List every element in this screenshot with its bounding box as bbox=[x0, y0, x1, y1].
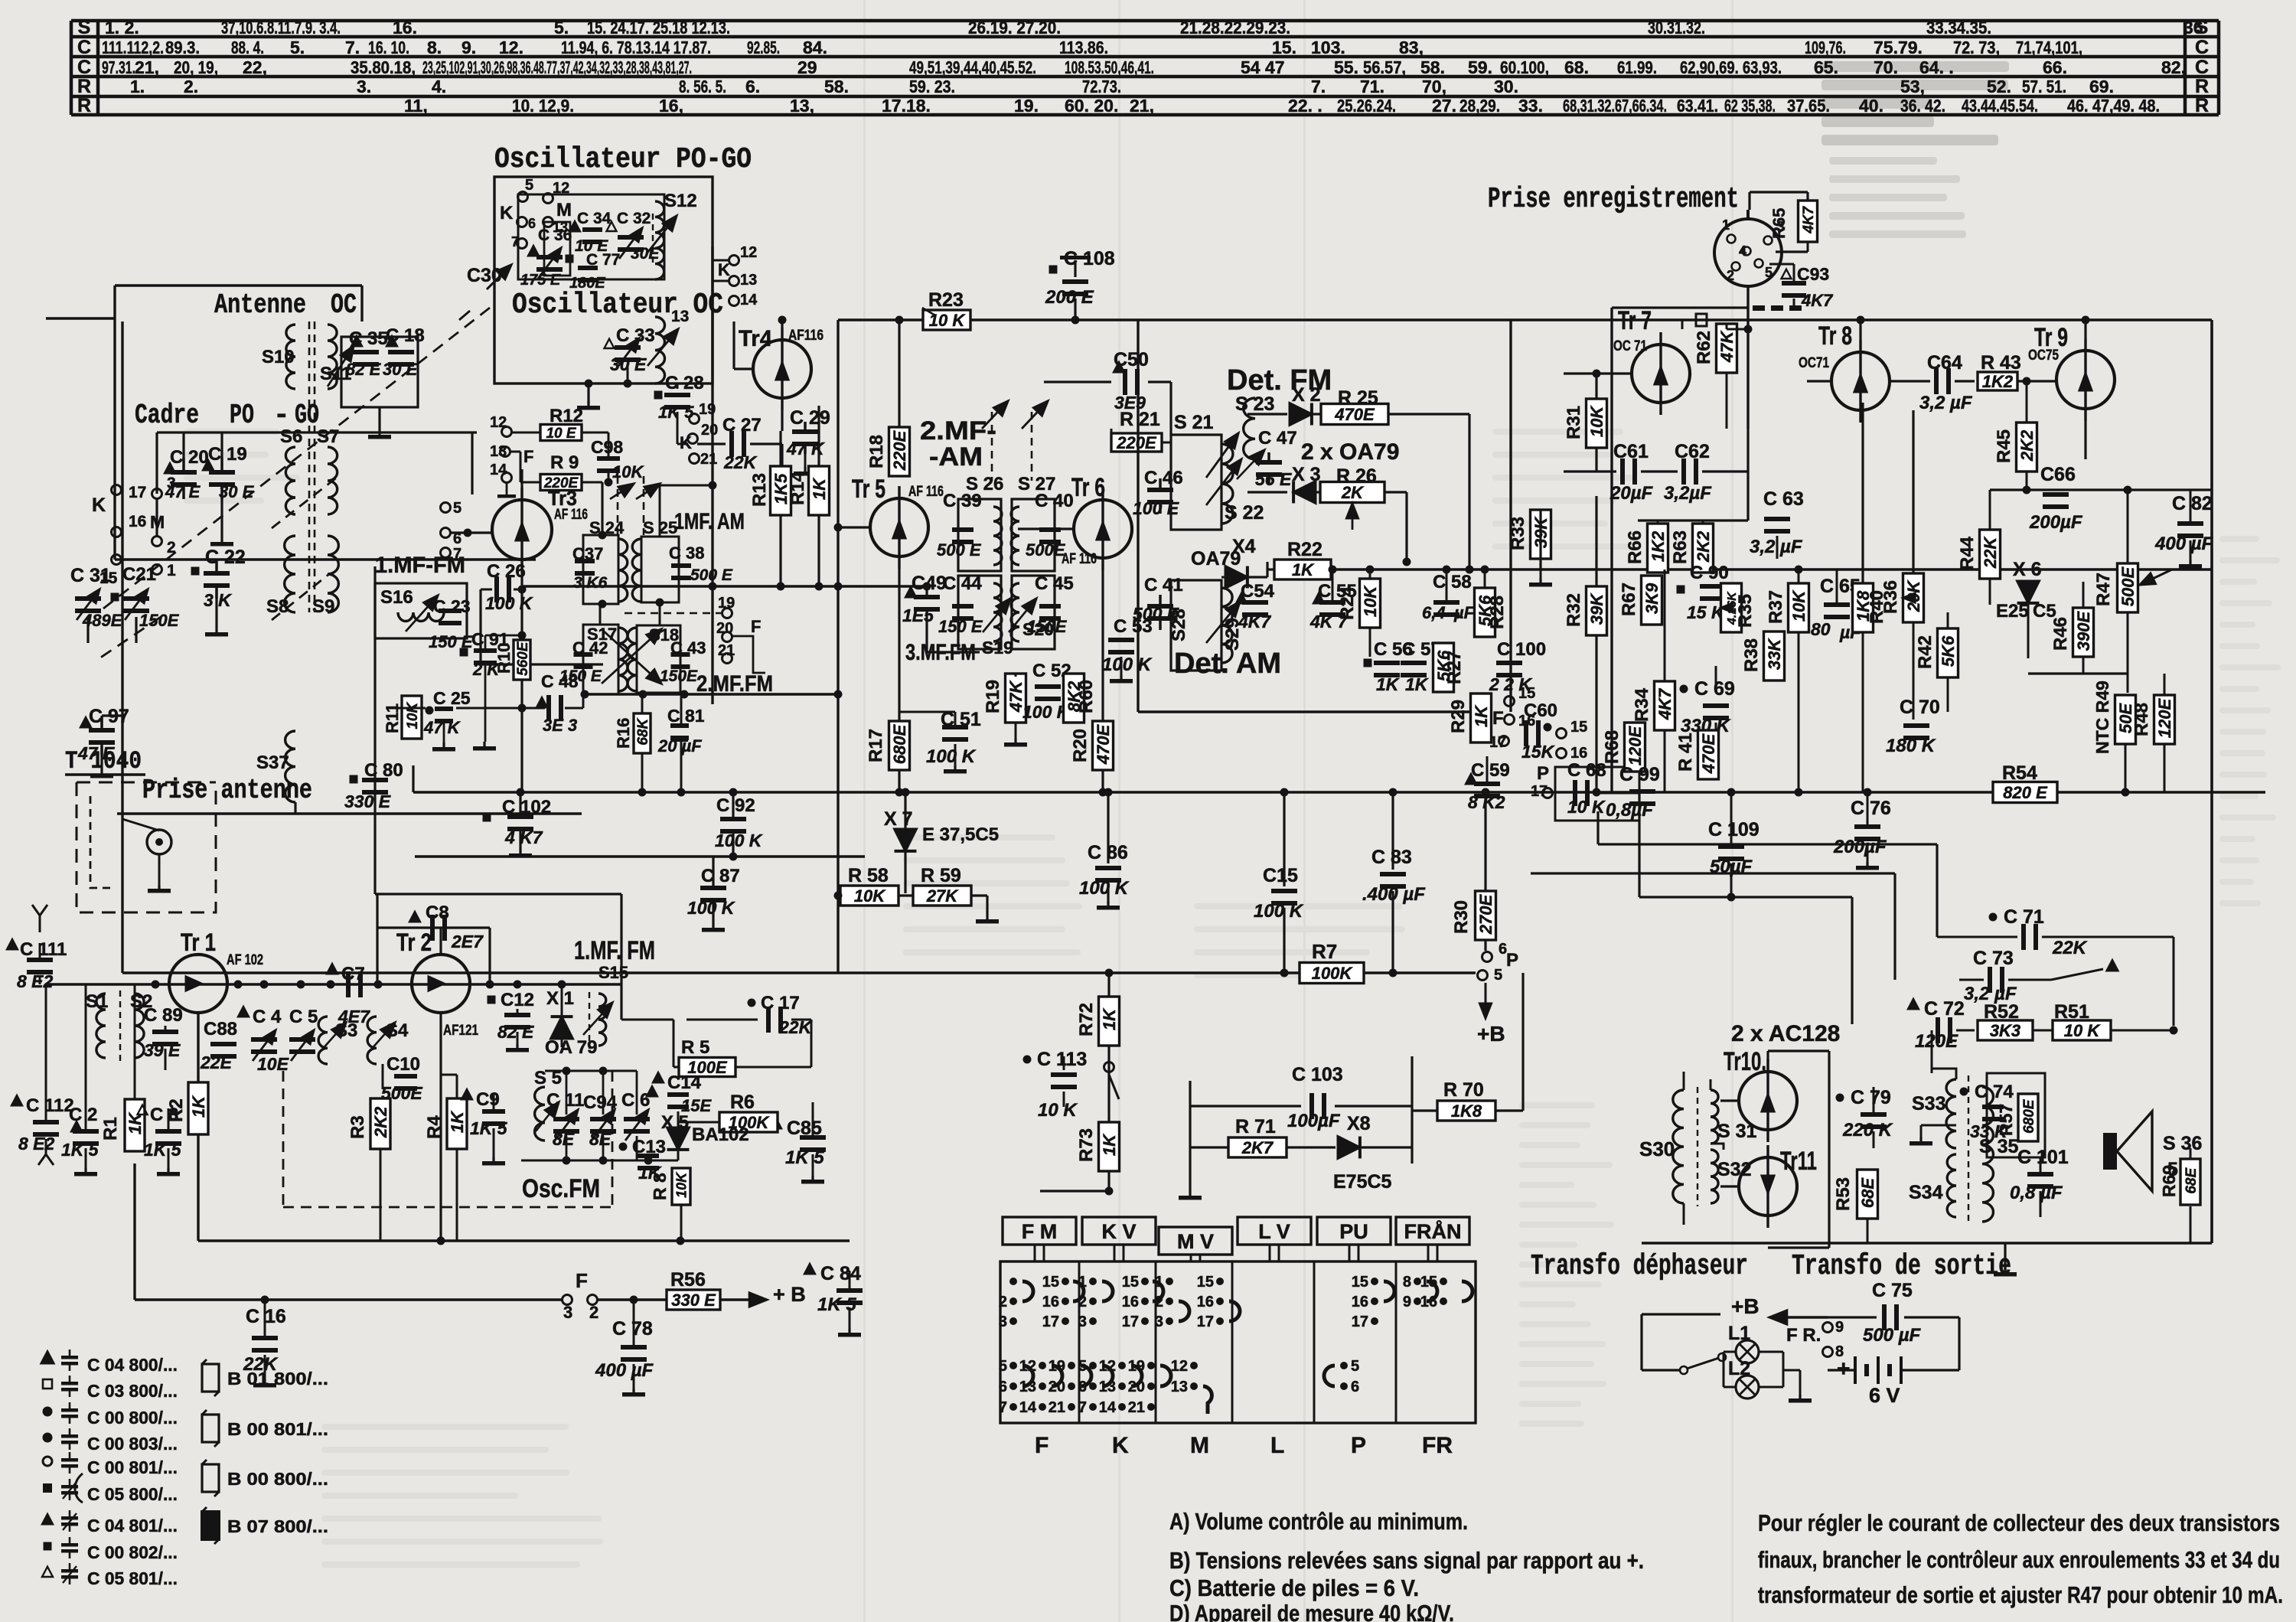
svg-text:C64: C64 bbox=[1927, 352, 1962, 374]
svg-text:C 70: C 70 bbox=[1900, 697, 1940, 718]
svg-text:R 58: R 58 bbox=[848, 865, 889, 886]
svg-text:C98: C98 bbox=[591, 437, 623, 457]
svg-text:C 05 801/...: C 05 801/... bbox=[87, 1568, 178, 1588]
svg-text:S15: S15 bbox=[598, 963, 628, 982]
svg-text:C 102: C 102 bbox=[502, 797, 551, 818]
svg-text:2K2: 2K2 bbox=[1694, 530, 1713, 563]
svg-text:Oscillateur OC: Oscillateur OC bbox=[512, 289, 723, 321]
svg-text:C 113: C 113 bbox=[1037, 1049, 1087, 1070]
svg-text:PO: PO bbox=[230, 400, 254, 431]
svg-text:43.44.45.54.: 43.44.45.54. bbox=[1962, 96, 2038, 116]
svg-text:R37: R37 bbox=[1766, 590, 1786, 624]
svg-text:L: L bbox=[1270, 1433, 1284, 1458]
svg-text:390E: 390E bbox=[2074, 610, 2093, 651]
svg-text:C 25: C 25 bbox=[433, 688, 471, 708]
svg-text:R20: R20 bbox=[1070, 729, 1091, 762]
svg-text:7.: 7. bbox=[345, 38, 360, 57]
svg-text:P: P bbox=[1351, 1433, 1366, 1458]
svg-text:F R.: F R. bbox=[1786, 1325, 1821, 1346]
svg-text:+B: +B bbox=[1477, 1022, 1505, 1046]
svg-text:S19: S19 bbox=[982, 638, 1013, 658]
svg-text:37,10.6.8.11.7.9. 3.4.: 37,10.6.8.11.7.9. 3.4. bbox=[221, 18, 341, 38]
svg-text:7: 7 bbox=[999, 1399, 1007, 1416]
svg-text:M: M bbox=[556, 200, 572, 220]
svg-text:36. 42.: 36. 42. bbox=[1900, 96, 1945, 116]
svg-text:61.99.: 61.99. bbox=[1617, 57, 1657, 77]
svg-text:R 71: R 71 bbox=[1235, 1116, 1276, 1137]
svg-text:C 03 800/...: C 03 800/... bbox=[87, 1381, 178, 1401]
svg-text:S 31: S 31 bbox=[1717, 1121, 1757, 1142]
svg-text:72.73.: 72.73. bbox=[1082, 77, 1121, 96]
svg-text:S6: S6 bbox=[280, 426, 302, 447]
svg-text:R14: R14 bbox=[788, 471, 808, 505]
svg-text:OC: OC bbox=[331, 289, 357, 321]
svg-text:17: 17 bbox=[1042, 1314, 1059, 1330]
svg-text:29: 29 bbox=[797, 57, 817, 77]
svg-text:680E: 680E bbox=[2021, 1098, 2037, 1134]
svg-text:17: 17 bbox=[1352, 1314, 1368, 1330]
svg-text:S12: S12 bbox=[664, 191, 697, 211]
svg-text:22K: 22K bbox=[2052, 938, 2088, 958]
svg-text:C 109: C 109 bbox=[1708, 819, 1760, 840]
svg-text:B 07 800/...: B 07 800/... bbox=[227, 1516, 328, 1536]
svg-text:1K: 1K bbox=[189, 1095, 208, 1118]
svg-text:15: 15 bbox=[1352, 1274, 1368, 1291]
svg-text:AF 116: AF 116 bbox=[554, 507, 588, 523]
svg-text:R4: R4 bbox=[424, 1115, 445, 1139]
svg-text:+ B: + B bbox=[773, 1283, 806, 1306]
svg-text:16: 16 bbox=[1570, 745, 1587, 762]
svg-text:Tr 8: Tr 8 bbox=[1818, 321, 1852, 351]
svg-text:69.: 69. bbox=[2089, 77, 2114, 96]
svg-text:Tr 1: Tr 1 bbox=[181, 928, 216, 956]
svg-text:150 E: 150 E bbox=[938, 617, 983, 636]
svg-text:10 K: 10 K bbox=[1567, 797, 1606, 817]
svg-text:E 37,5C5: E 37,5C5 bbox=[922, 824, 999, 845]
svg-text:14: 14 bbox=[1099, 1399, 1117, 1416]
svg-text:C 46: C 46 bbox=[1144, 468, 1183, 488]
svg-text:FR: FR bbox=[1422, 1433, 1453, 1458]
svg-text:AF116: AF116 bbox=[788, 328, 823, 344]
svg-text:X 3: X 3 bbox=[1292, 464, 1321, 485]
svg-text:S9: S9 bbox=[312, 596, 334, 617]
svg-text:2E7: 2E7 bbox=[451, 932, 484, 951]
svg-text:14: 14 bbox=[490, 462, 507, 478]
svg-text:39K: 39K bbox=[1587, 592, 1606, 625]
svg-text:1K: 1K bbox=[1100, 1007, 1119, 1030]
svg-text:C: C bbox=[77, 37, 91, 58]
svg-text:15 K: 15 K bbox=[1687, 602, 1725, 622]
svg-text:2K2: 2K2 bbox=[2017, 429, 2037, 462]
svg-text:470E: 470E bbox=[1699, 733, 1718, 774]
svg-text:C: C bbox=[2195, 57, 2209, 78]
svg-text:F: F bbox=[1492, 708, 1504, 729]
svg-text:3: 3 bbox=[167, 475, 176, 492]
svg-text:1K 5: 1K 5 bbox=[817, 1294, 856, 1315]
svg-text:120E: 120E bbox=[1626, 725, 1645, 765]
svg-text:820 E: 820 E bbox=[2003, 783, 2048, 802]
svg-text:R: R bbox=[77, 95, 91, 116]
svg-text:R35: R35 bbox=[1735, 594, 1756, 628]
svg-text:330 E: 330 E bbox=[671, 1291, 716, 1310]
svg-text:2.MF-: 2.MF- bbox=[920, 416, 996, 445]
svg-text:5: 5 bbox=[1494, 967, 1502, 984]
svg-text:13: 13 bbox=[1171, 1379, 1188, 1395]
svg-text:1. 2.: 1. 2. bbox=[105, 18, 139, 38]
svg-text:R6: R6 bbox=[730, 1092, 755, 1113]
svg-text:C 31: C 31 bbox=[70, 565, 111, 586]
svg-text:30 E: 30 E bbox=[383, 360, 419, 379]
svg-text:C 84: C 84 bbox=[820, 1263, 861, 1284]
svg-text:C: C bbox=[77, 57, 91, 78]
svg-text:C 83: C 83 bbox=[1371, 847, 1412, 868]
svg-text:C 90: C 90 bbox=[1690, 563, 1729, 583]
svg-text:150E: 150E bbox=[660, 667, 698, 685]
svg-text:S20: S20 bbox=[1022, 619, 1054, 639]
svg-text:9: 9 bbox=[1835, 1319, 1844, 1336]
svg-text:15: 15 bbox=[1518, 685, 1535, 702]
svg-text:C 58: C 58 bbox=[1433, 572, 1472, 592]
svg-text:B 00 800/...: B 00 800/... bbox=[227, 1469, 328, 1489]
svg-text:70,: 70, bbox=[1422, 77, 1446, 96]
svg-text:3E 3: 3E 3 bbox=[543, 716, 577, 735]
svg-text:1K: 1K bbox=[810, 477, 829, 500]
svg-text:5: 5 bbox=[999, 1358, 1007, 1375]
svg-text:68E: 68E bbox=[1858, 1177, 1877, 1208]
svg-text:10 K: 10 K bbox=[929, 311, 967, 330]
svg-text:C 22: C 22 bbox=[205, 547, 246, 568]
svg-text:R 8: R 8 bbox=[650, 1173, 670, 1200]
svg-text:40.: 40. bbox=[1859, 96, 1883, 116]
svg-text:Oscillateur PO-GO: Oscillateur PO-GO bbox=[494, 143, 752, 176]
svg-text:R 41: R 41 bbox=[1675, 733, 1696, 772]
svg-text:15: 15 bbox=[1570, 719, 1587, 736]
svg-text:C 79: C 79 bbox=[1851, 1087, 1891, 1108]
svg-text:C 78: C 78 bbox=[612, 1318, 653, 1340]
svg-text:92.85.: 92.85. bbox=[747, 38, 780, 57]
svg-text:20 µF: 20 µF bbox=[657, 736, 702, 756]
svg-text:C9: C9 bbox=[476, 1089, 500, 1110]
svg-text:S32: S32 bbox=[1717, 1159, 1751, 1180]
svg-text:5: 5 bbox=[1351, 1358, 1359, 1375]
svg-text:53,: 53, bbox=[1900, 77, 1925, 96]
svg-text:C66: C66 bbox=[2040, 464, 2076, 485]
svg-text:R 43: R 43 bbox=[1981, 352, 2021, 374]
svg-text:C 40: C 40 bbox=[1035, 491, 1074, 511]
svg-text:560E: 560E bbox=[515, 641, 531, 676]
svg-text:200 E: 200 E bbox=[1045, 287, 1094, 308]
svg-text:33.34.35.: 33.34.35. bbox=[1926, 18, 1991, 38]
svg-text:NTC R49: NTC R49 bbox=[2092, 680, 2112, 754]
svg-text:K: K bbox=[718, 260, 730, 279]
svg-text:E75C5: E75C5 bbox=[1333, 1171, 1392, 1193]
svg-text:82,: 82, bbox=[2161, 57, 2186, 77]
svg-text:C 35: C 35 bbox=[349, 328, 388, 349]
svg-text:8E: 8E bbox=[589, 1129, 612, 1149]
svg-text:R 59: R 59 bbox=[921, 865, 961, 886]
svg-text:C 00 801/...: C 00 801/... bbox=[87, 1457, 178, 1477]
svg-text:L1: L1 bbox=[1728, 1323, 1750, 1344]
svg-text:R57: R57 bbox=[1996, 1104, 2016, 1136]
svg-text:12.: 12. bbox=[499, 38, 523, 57]
svg-text:36: 36 bbox=[2183, 18, 2203, 38]
svg-text:R54: R54 bbox=[2002, 762, 2037, 784]
svg-text:C 32: C 32 bbox=[617, 210, 651, 227]
svg-text:1K2: 1K2 bbox=[1649, 530, 1668, 562]
svg-text:10 K: 10 K bbox=[2064, 1021, 2102, 1040]
svg-text:Pour régler le courant de coll: Pour régler le courant de collecteur des… bbox=[1758, 1509, 2280, 1536]
svg-text:59. 23.: 59. 23. bbox=[909, 77, 955, 96]
svg-text:C 38: C 38 bbox=[669, 543, 704, 563]
svg-text:68K: 68K bbox=[635, 718, 651, 746]
svg-text:Osc.FM: Osc.FM bbox=[522, 1174, 600, 1203]
svg-text:7: 7 bbox=[511, 234, 519, 250]
svg-text:R 21: R 21 bbox=[1120, 409, 1160, 430]
svg-text:C 81: C 81 bbox=[667, 706, 705, 726]
svg-text:S 21: S 21 bbox=[1174, 412, 1214, 433]
svg-text:12: 12 bbox=[490, 414, 507, 431]
svg-text:C 82: C 82 bbox=[2172, 493, 2213, 514]
svg-text:120E: 120E bbox=[2155, 697, 2174, 738]
svg-text:23,25,102,91,30,26,98,36.48.77: 23,25,102,91,30,26,98,36.48.77,37,42,34,… bbox=[422, 57, 692, 77]
svg-text:C15: C15 bbox=[1263, 865, 1298, 886]
svg-text:1K: 1K bbox=[448, 1110, 467, 1133]
svg-text:P: P bbox=[1537, 763, 1549, 784]
svg-text:R 5: R 5 bbox=[681, 1037, 709, 1058]
svg-text:16. 10.: 16. 10. bbox=[368, 38, 409, 57]
svg-text:82 E: 82 E bbox=[497, 1022, 534, 1042]
svg-text:2.: 2. bbox=[184, 77, 198, 96]
svg-text:C 86: C 86 bbox=[1088, 842, 1128, 863]
svg-text:30 E: 30 E bbox=[219, 482, 255, 501]
svg-text:C 18: C 18 bbox=[386, 325, 425, 346]
svg-text:20: 20 bbox=[716, 620, 733, 637]
svg-text:30.: 30. bbox=[1494, 77, 1518, 96]
svg-text:Prise enregistrement: Prise enregistrement bbox=[1488, 183, 1739, 216]
svg-text:R 9: R 9 bbox=[550, 452, 579, 473]
svg-text:60.100,: 60.100, bbox=[1500, 57, 1549, 77]
svg-text:C 63: C 63 bbox=[1763, 488, 1804, 510]
svg-text:200µF: 200µF bbox=[1833, 837, 1887, 857]
svg-text:0,8µF: 0,8µF bbox=[1606, 800, 1654, 821]
svg-text:47 K: 47 K bbox=[423, 718, 461, 737]
svg-text:µF: µF bbox=[1453, 603, 1475, 622]
svg-text:470E: 470E bbox=[1334, 405, 1375, 424]
svg-text:15: 15 bbox=[1122, 1274, 1139, 1291]
svg-text:S28: S28 bbox=[1169, 609, 1189, 641]
svg-text:10 E: 10 E bbox=[546, 426, 576, 442]
svg-text:K: K bbox=[92, 494, 106, 516]
svg-text:C 44: C 44 bbox=[943, 573, 982, 594]
svg-text:89.3.: 89.3. bbox=[165, 38, 200, 57]
svg-text:4K7: 4K7 bbox=[1801, 291, 1834, 310]
svg-text:C 75: C 75 bbox=[1872, 1280, 1913, 1301]
svg-text:S37: S37 bbox=[256, 752, 289, 773]
svg-text:finaux, brancher le contrôleur: finaux, brancher le contrôleur aux enrou… bbox=[1758, 1546, 2280, 1573]
svg-text:C10: C10 bbox=[386, 1054, 420, 1075]
svg-text:58.: 58. bbox=[824, 77, 849, 96]
svg-text:OC71: OC71 bbox=[1799, 355, 1829, 371]
svg-text:Tr 7: Tr 7 bbox=[1618, 306, 1652, 335]
svg-text:2K2: 2K2 bbox=[371, 1106, 390, 1138]
svg-text:B 01 800/...: B 01 800/... bbox=[227, 1369, 328, 1389]
svg-text:7: 7 bbox=[1078, 1399, 1087, 1416]
svg-text:22K: 22K bbox=[243, 1354, 279, 1375]
svg-text:100K: 100K bbox=[1312, 964, 1354, 983]
svg-text:28,29.: 28,29. bbox=[1459, 96, 1500, 116]
svg-text:C12: C12 bbox=[501, 990, 534, 1010]
svg-text:D) Appareil de mesure 40 kΩ/V: D) Appareil de mesure 40 kΩ/V. bbox=[1169, 1600, 1454, 1622]
svg-text:C30: C30 bbox=[467, 265, 502, 286]
svg-text:R62: R62 bbox=[1694, 331, 1714, 364]
svg-text:30.31.32.: 30.31.32. bbox=[1648, 18, 1705, 38]
svg-text:58.: 58. bbox=[1420, 57, 1445, 77]
svg-text:10K: 10K bbox=[405, 702, 421, 729]
svg-text:S 36: S 36 bbox=[2163, 1133, 2202, 1154]
svg-text:120E: 120E bbox=[1915, 1031, 1958, 1052]
svg-text:22. .: 22. . bbox=[1288, 96, 1322, 116]
svg-text:transformateur de sortie et aj: transformateur de sortie et ajuster R47 … bbox=[1758, 1581, 2283, 1608]
svg-text:9: 9 bbox=[1403, 1294, 1411, 1310]
svg-text:R44: R44 bbox=[1957, 536, 1978, 570]
svg-text:C 99: C 99 bbox=[1619, 764, 1660, 785]
svg-text:1K 5: 1K 5 bbox=[470, 1118, 508, 1138]
svg-text:3: 3 bbox=[563, 1303, 572, 1322]
svg-text:6 V: 6 V bbox=[1869, 1384, 1900, 1407]
svg-text:47K: 47K bbox=[1717, 330, 1737, 363]
svg-text:10K: 10K bbox=[1789, 589, 1808, 622]
svg-text:C54: C54 bbox=[1241, 581, 1275, 602]
svg-text:C 04 801/...: C 04 801/... bbox=[87, 1516, 178, 1536]
svg-text:500E: 500E bbox=[2118, 566, 2138, 606]
svg-text:1.: 1. bbox=[130, 77, 145, 96]
svg-text:21,: 21, bbox=[135, 57, 159, 77]
svg-text:21.28.22.29.23.: 21.28.22.29.23. bbox=[1180, 18, 1290, 38]
svg-text:15: 15 bbox=[1042, 1274, 1059, 1291]
svg-text:C 05 800/...: C 05 800/... bbox=[87, 1484, 178, 1504]
svg-text:4K7: 4K7 bbox=[1801, 205, 1817, 233]
svg-text:C 42: C 42 bbox=[572, 638, 608, 658]
svg-text:8.: 8. bbox=[427, 38, 442, 57]
svg-text:97.31.: 97.31. bbox=[102, 57, 135, 77]
svg-text:109,76.: 109,76. bbox=[1805, 38, 1846, 57]
svg-text:R28: R28 bbox=[1487, 596, 1508, 629]
svg-text:+: + bbox=[1837, 1356, 1851, 1382]
svg-text:71,74,101,: 71,74,101, bbox=[2016, 38, 2082, 57]
svg-text:680E: 680E bbox=[890, 723, 909, 764]
svg-text:33K: 33K bbox=[1765, 638, 1784, 670]
svg-text:R: R bbox=[2195, 76, 2209, 97]
svg-text:K: K bbox=[500, 203, 514, 224]
svg-text:C 29: C 29 bbox=[790, 407, 830, 429]
svg-text:16.: 16. bbox=[393, 18, 417, 38]
svg-text:R73: R73 bbox=[1076, 1128, 1097, 1162]
svg-text:10K: 10K bbox=[673, 1171, 689, 1198]
svg-text:59.: 59. bbox=[1468, 57, 1492, 77]
svg-text:AF 116: AF 116 bbox=[1062, 551, 1097, 567]
svg-text:17.18.: 17.18. bbox=[882, 96, 931, 116]
svg-text:25.26.24.: 25.26.24. bbox=[1337, 96, 1396, 116]
svg-text:C 26: C 26 bbox=[487, 561, 526, 582]
svg-text:Antenne: Antenne bbox=[214, 289, 306, 321]
svg-text:1K 5: 1K 5 bbox=[785, 1147, 824, 1168]
svg-text:80: 80 bbox=[1811, 619, 1831, 639]
svg-text:PU: PU bbox=[1339, 1220, 1368, 1243]
svg-text:13: 13 bbox=[671, 308, 689, 325]
svg-text:17: 17 bbox=[129, 484, 146, 501]
svg-text:R31: R31 bbox=[1564, 406, 1584, 439]
svg-text:8 E2: 8 E2 bbox=[18, 1134, 55, 1154]
svg-text:27.: 27. bbox=[1432, 96, 1456, 116]
svg-text:R19: R19 bbox=[983, 680, 1003, 713]
svg-text:R1: R1 bbox=[100, 1117, 121, 1141]
svg-text:FRÅN: FRÅN bbox=[1404, 1219, 1462, 1243]
svg-text:R32: R32 bbox=[1564, 593, 1584, 627]
svg-text:C 36: C 36 bbox=[538, 227, 572, 244]
svg-text:L2: L2 bbox=[1728, 1358, 1750, 1379]
svg-text:M: M bbox=[1190, 1433, 1209, 1458]
svg-text:R53: R53 bbox=[1833, 1177, 1854, 1211]
svg-text:12: 12 bbox=[553, 180, 569, 197]
svg-text:S33: S33 bbox=[1912, 1093, 1945, 1115]
svg-text:500E: 500E bbox=[1026, 540, 1066, 560]
svg-text:C8: C8 bbox=[426, 902, 449, 923]
svg-text:108.53.50,46,41.: 108.53.50,46,41. bbox=[1065, 57, 1154, 77]
svg-text:72. 73,: 72. 73, bbox=[1953, 38, 2000, 57]
svg-text:Cadre: Cadre bbox=[135, 400, 199, 431]
svg-text:180 K: 180 K bbox=[1886, 736, 1936, 756]
svg-text:56 E: 56 E bbox=[1255, 469, 1292, 489]
svg-text:35.80.18,: 35.80.18, bbox=[351, 57, 416, 77]
svg-text:47 E: 47 E bbox=[77, 743, 115, 763]
svg-text:57. 51.: 57. 51. bbox=[2022, 77, 2066, 96]
svg-text:R13: R13 bbox=[749, 473, 770, 507]
svg-text:5: 5 bbox=[525, 177, 533, 194]
svg-text:400 µF: 400 µF bbox=[2154, 534, 2214, 554]
svg-text:X 1: X 1 bbox=[546, 988, 574, 1009]
svg-text:17: 17 bbox=[1122, 1314, 1139, 1330]
svg-text:E25: E25 bbox=[1996, 601, 2029, 622]
svg-text:84.: 84. bbox=[803, 38, 827, 57]
svg-text:2K: 2K bbox=[1341, 483, 1365, 502]
svg-text:4: 4 bbox=[1739, 243, 1746, 259]
svg-text:27K: 27K bbox=[926, 886, 959, 906]
svg-text:46. 47,49. 48.: 46. 47,49. 48. bbox=[2067, 96, 2160, 116]
svg-text:OC75: OC75 bbox=[2028, 348, 2059, 364]
svg-text:R56: R56 bbox=[670, 1269, 706, 1291]
svg-text:C 72: C 72 bbox=[1924, 998, 1965, 1020]
svg-text:1.MF-FM: 1.MF-FM bbox=[375, 553, 465, 578]
svg-text:62 35,38.: 62 35,38. bbox=[1724, 96, 1776, 116]
svg-text:13,: 13, bbox=[790, 96, 814, 116]
svg-text:C 89: C 89 bbox=[144, 1005, 183, 1026]
svg-text:4.: 4. bbox=[432, 77, 446, 96]
svg-text:R3: R3 bbox=[347, 1115, 368, 1139]
svg-text:1: 1 bbox=[1722, 217, 1730, 233]
svg-text:2: 2 bbox=[1727, 268, 1734, 283]
svg-text:330 E: 330 E bbox=[344, 791, 391, 811]
svg-text:1: 1 bbox=[167, 562, 176, 579]
svg-text:6.: 6. bbox=[745, 77, 760, 96]
svg-text:AF 116: AF 116 bbox=[908, 484, 944, 500]
svg-text:C 11: C 11 bbox=[546, 1090, 584, 1111]
svg-text:C61: C61 bbox=[1613, 441, 1649, 462]
svg-text:R48: R48 bbox=[2131, 703, 2152, 736]
svg-text:S30: S30 bbox=[1639, 1137, 1675, 1160]
svg-text:R10: R10 bbox=[494, 643, 514, 674]
svg-text:AF121: AF121 bbox=[443, 1023, 478, 1039]
svg-text:C 112: C 112 bbox=[26, 1095, 74, 1116]
